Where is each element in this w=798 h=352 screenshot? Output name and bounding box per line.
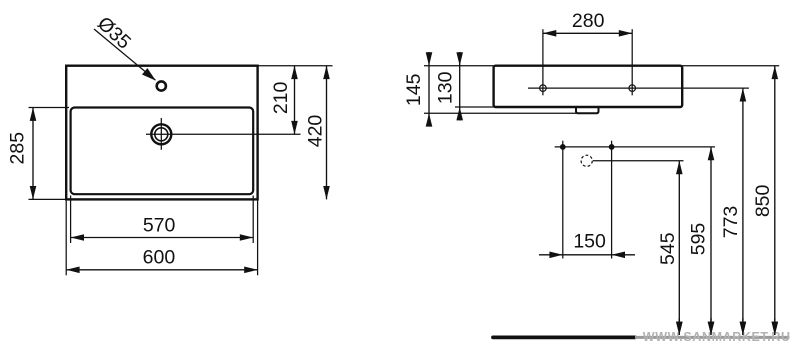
svg-text:545: 545	[657, 232, 679, 265]
svg-text:600: 600	[143, 247, 176, 269]
svg-text:595: 595	[688, 223, 710, 256]
svg-text:280: 280	[572, 10, 605, 32]
svg-text:850: 850	[752, 184, 774, 217]
svg-text:773: 773	[720, 206, 742, 239]
svg-text:WWW.SANMARKET.RU: WWW.SANMARKET.RU	[643, 330, 791, 344]
svg-text:420: 420	[305, 115, 327, 148]
svg-text:570: 570	[143, 215, 176, 237]
svg-text:130: 130	[435, 71, 457, 104]
svg-text:145: 145	[403, 73, 425, 106]
svg-text:150: 150	[573, 230, 606, 252]
svg-text:210: 210	[270, 81, 292, 114]
svg-text:285: 285	[7, 132, 29, 165]
